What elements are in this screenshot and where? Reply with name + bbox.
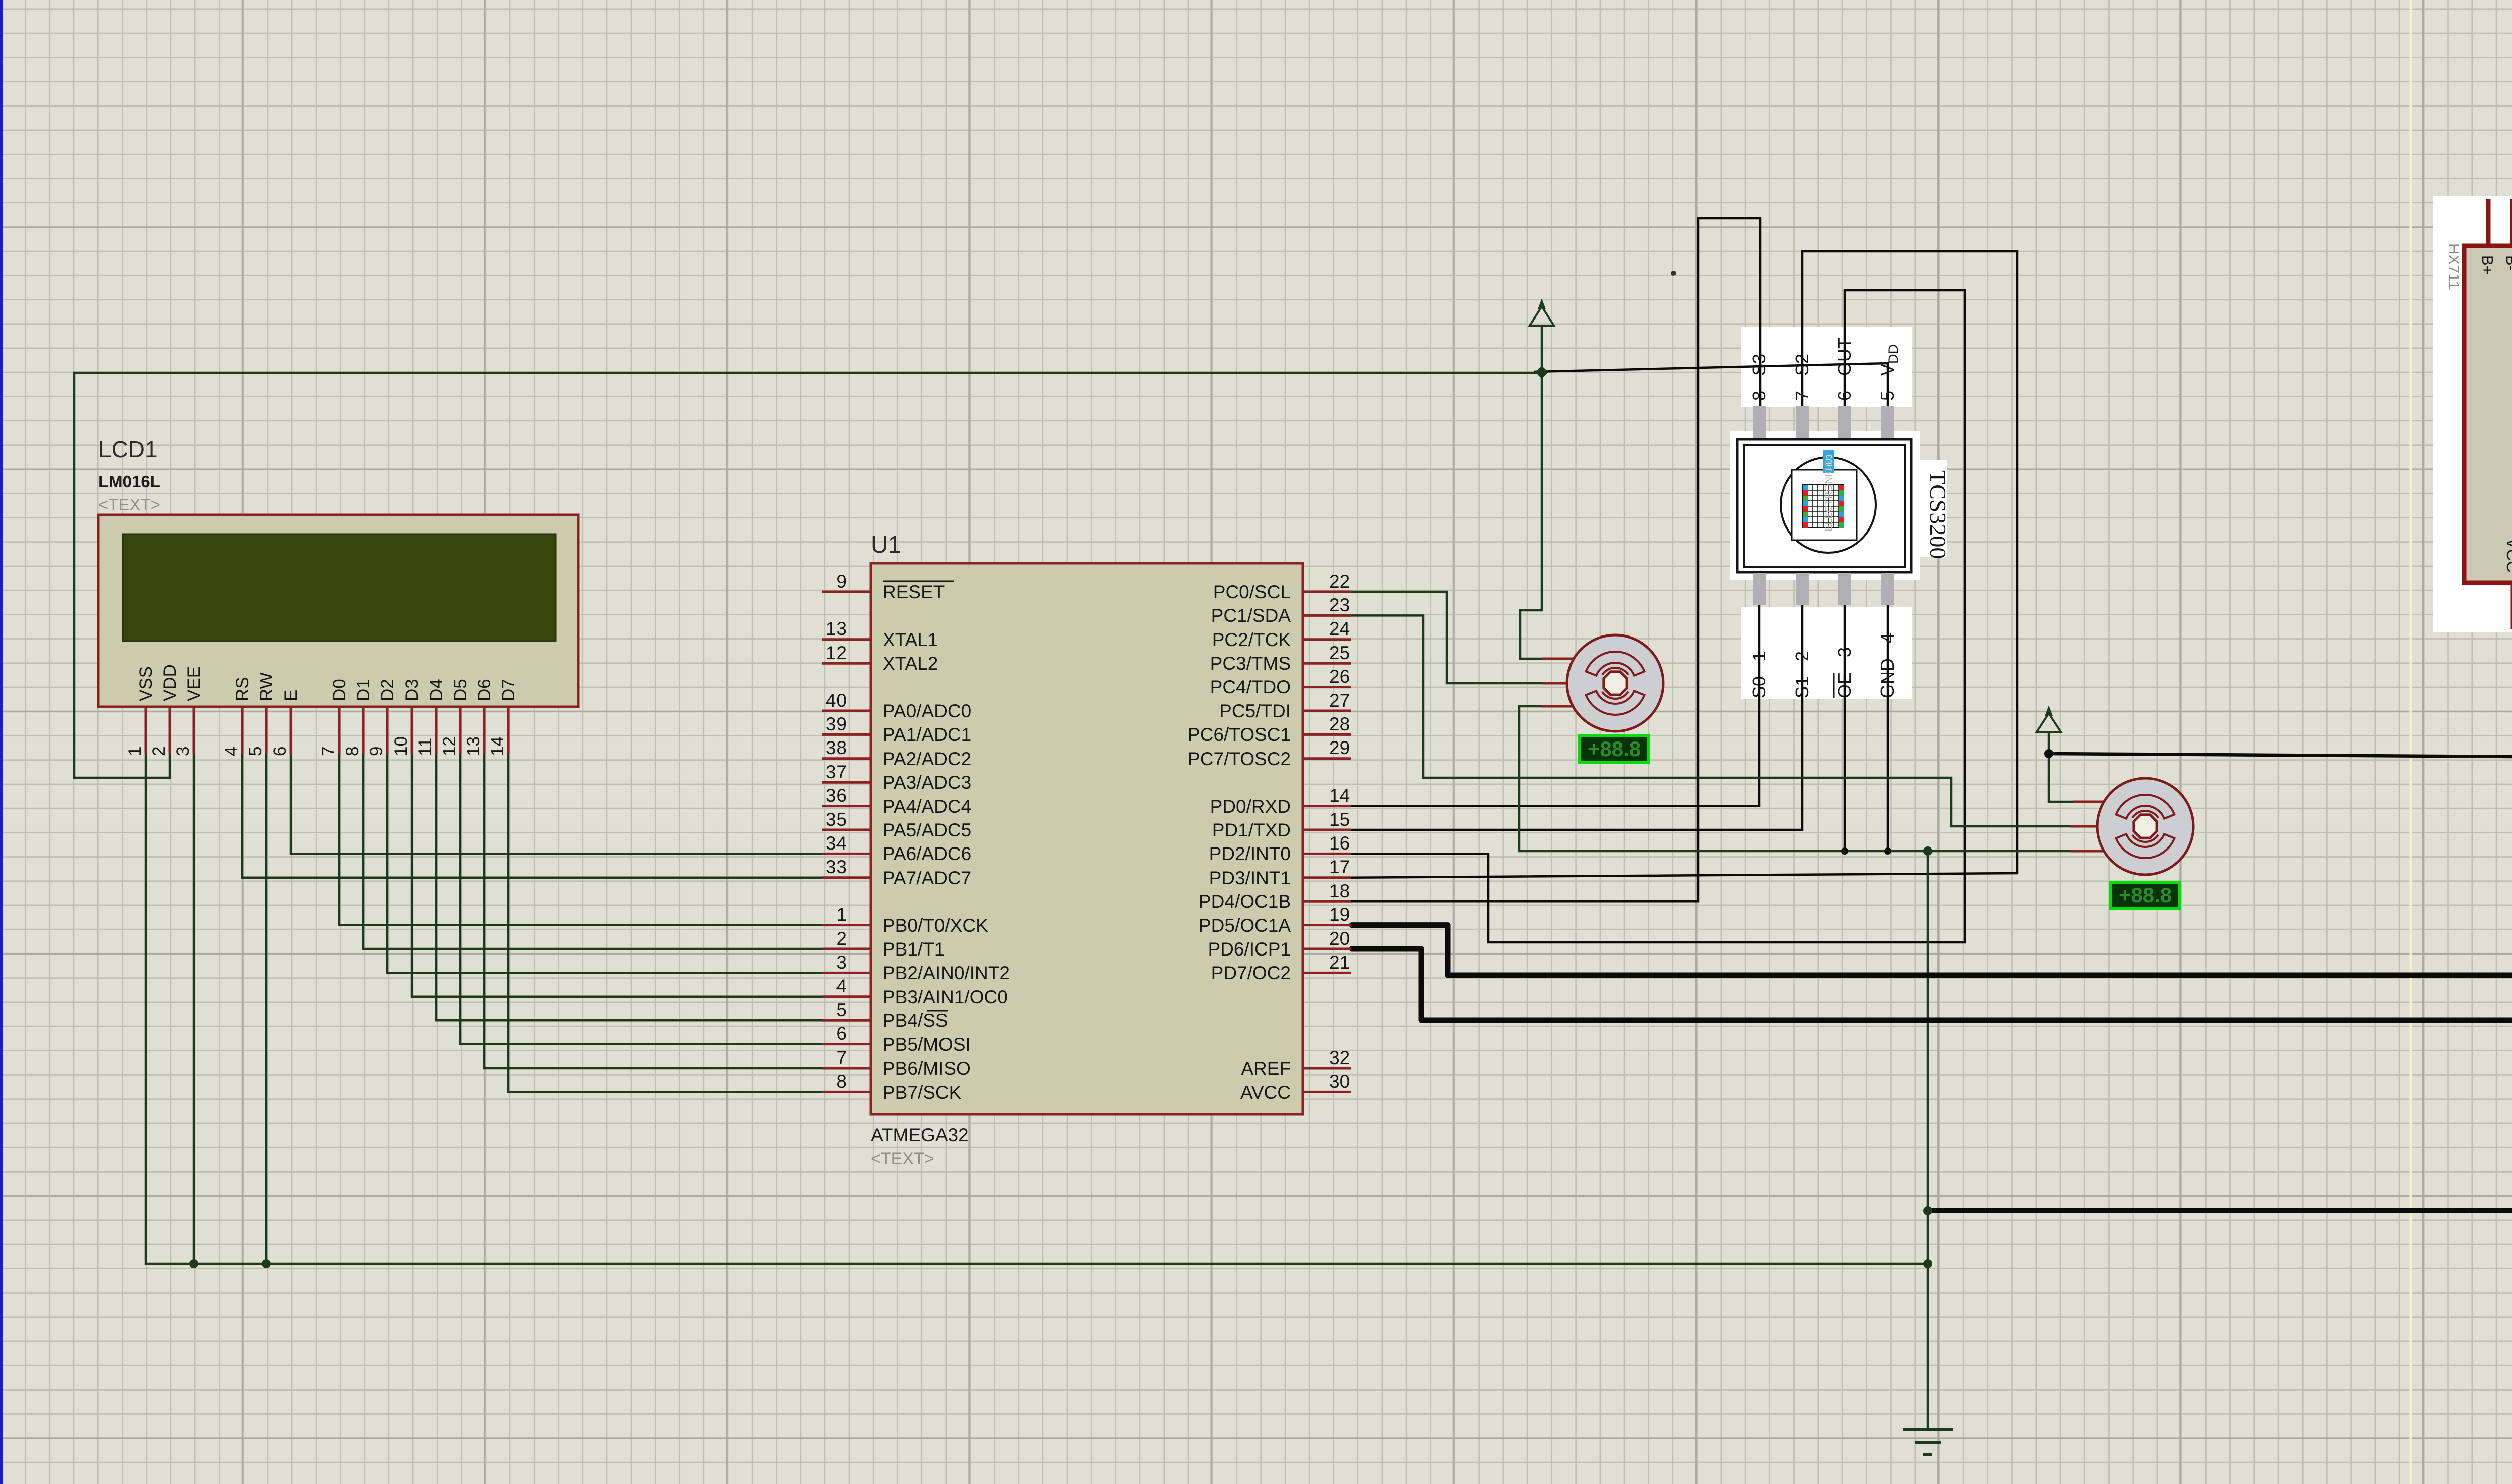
- svg-text:PA3/ADC3: PA3/ADC3: [883, 772, 971, 793]
- svg-text:PC4/TDO: PC4/TDO: [1210, 677, 1291, 697]
- svg-text:38: 38: [826, 737, 847, 758]
- svg-text:ELECTRONICS: ELECTRONICS: [1823, 460, 1834, 532]
- power symbol VCC2: [2037, 708, 2073, 802]
- LCD1 body: [98, 515, 578, 707]
- svg-text:PB7/SCK: PB7/SCK: [883, 1082, 962, 1103]
- svg-text:35: 35: [826, 809, 847, 830]
- wire LCD E to PA6: [291, 754, 822, 854]
- svg-text:AVCC: AVCC: [1240, 1082, 1291, 1103]
- svg-text:26: 26: [1329, 666, 1350, 687]
- svg-text:39: 39: [826, 714, 847, 734]
- ATMEGA32 body: [871, 563, 1303, 1114]
- junction node ground rail bottom: [1923, 1259, 1932, 1268]
- wire PD1/TXD to TCS S1: [1351, 593, 1802, 830]
- svg-text:12: 12: [826, 643, 847, 663]
- svg-text:D3: D3: [402, 679, 422, 701]
- svg-text:PD3/INT1: PD3/INT1: [1209, 868, 1291, 888]
- svg-text:S1 2: S1 2: [1792, 651, 1812, 698]
- svg-text:VCC: VCC: [2503, 538, 2512, 573]
- motor pin red stubs: [1541, 659, 2105, 851]
- svg-text:3: 3: [173, 747, 193, 756]
- motor M2 speed display +88.8: [2111, 882, 2180, 908]
- LCD pin stubs: [146, 707, 508, 754]
- svg-text:8 S3: 8 S3: [1749, 354, 1769, 401]
- svg-text:PC7/TOSC2: PC7/TOSC2: [1188, 749, 1291, 769]
- svg-text:D2: D2: [378, 679, 397, 701]
- svg-text:14: 14: [1329, 785, 1350, 806]
- svg-text:PC3/TMS: PC3/TMS: [1210, 653, 1291, 674]
- svg-text:PA6/ADC6: PA6/ADC6: [883, 843, 971, 864]
- pale sheet divider line: [2410, 0, 2412, 1484]
- svg-text:36: 36: [826, 785, 847, 806]
- wire TCS OE down to ground rail: [1844, 590, 1846, 851]
- svg-text:PA1/ADC1: PA1/ADC1: [883, 724, 971, 745]
- motor M2 body: [2097, 778, 2193, 875]
- TCS3200 lens circle: [1781, 457, 1876, 553]
- svg-text:LCD1: LCD1: [98, 436, 158, 462]
- svg-text:PD7/OC2: PD7/OC2: [1211, 963, 1291, 983]
- svg-text:VDD: VDD: [160, 664, 180, 701]
- HX711 top pin stubs: [2488, 199, 2512, 246]
- svg-text:22: 22: [1329, 571, 1350, 592]
- svg-text:3: 3: [836, 952, 847, 973]
- wire LCD D1 to PB1: [363, 754, 822, 949]
- svg-text:5: 5: [246, 747, 265, 756]
- svg-text:PB4/SS: PB4/SS: [883, 1010, 948, 1031]
- svg-text:40: 40: [826, 690, 847, 711]
- svg-text:16: 16: [1329, 833, 1350, 854]
- junction node ground rail top: [1923, 846, 1932, 856]
- svg-text:GND 4: GND 4: [1877, 633, 1898, 698]
- svg-text:B+: B+: [2479, 255, 2496, 275]
- TCS3200 photodiode array: [1792, 470, 1857, 540]
- HX711 white image background: [2433, 196, 2512, 632]
- TCS top pin pad 8/S3: [1753, 406, 1766, 438]
- svg-text:6: 6: [836, 1023, 847, 1044]
- junction node GND4 on ground rail: [1884, 847, 1891, 855]
- motor M1 speed display +88.8: [1580, 736, 1649, 762]
- svg-text:7 S2: 7 S2: [1792, 354, 1812, 401]
- svg-text:PA2/ADC2: PA2/ADC2: [883, 749, 971, 769]
- LCD1 screen: [123, 534, 556, 641]
- svg-text:PB0/T0/XCK: PB0/T0/XCK: [883, 915, 988, 936]
- wire power to HX711 VCC: [2049, 629, 2512, 757]
- svg-text:10: 10: [391, 736, 411, 756]
- wire LCD D6 to PB6: [484, 754, 822, 1068]
- TCS top pin pad 6/OUT: [1838, 406, 1851, 438]
- svg-text:RW: RW: [257, 672, 276, 701]
- svg-text:ATMEGA32: ATMEGA32: [871, 1125, 969, 1145]
- svg-text:PD1/TXD: PD1/TXD: [1212, 820, 1291, 840]
- svg-text:32: 32: [1329, 1047, 1350, 1068]
- svg-text:34: 34: [826, 833, 847, 854]
- svg-text:D7: D7: [499, 679, 518, 701]
- svg-text:+88.8: +88.8: [1588, 737, 1641, 761]
- svg-text:D4: D4: [427, 679, 446, 701]
- wire LCD RS to PA7: [242, 754, 822, 878]
- wire PD2/INT0 to TCS OUT: [1351, 290, 1965, 942]
- junction node VEE: [189, 1259, 198, 1268]
- svg-text:XTAL1: XTAL1: [883, 629, 938, 650]
- ATMEGA32 left pin stubs: [822, 592, 871, 1092]
- svg-text:2: 2: [149, 747, 169, 756]
- wire LCD D5 to PB5: [460, 754, 822, 1044]
- svg-text:RESET: RESET: [883, 582, 945, 602]
- junction node OE on ground rail: [1841, 847, 1848, 855]
- svg-text:19: 19: [1329, 904, 1350, 925]
- thick wire PD5/OC1A to HX711 SCK: [1352, 629, 2512, 975]
- svg-text:D6: D6: [475, 679, 494, 701]
- motor M2 top arc band: [2116, 795, 2175, 819]
- thick wire ground to HX711 GND: [1928, 629, 2512, 1211]
- svg-text:14: 14: [488, 736, 507, 756]
- wire PD4/OC1B to TCS S3: [1351, 218, 1760, 901]
- svg-text:PB5/MOSI: PB5/MOSI: [883, 1034, 971, 1055]
- svg-text:28: 28: [1329, 714, 1350, 734]
- ground symbol GND: [1903, 1430, 1953, 1454]
- svg-text:11: 11: [415, 738, 435, 756]
- svg-text:D0: D0: [330, 679, 349, 701]
- svg-text:U1: U1: [871, 532, 901, 558]
- svg-text:30: 30: [1329, 1071, 1350, 1092]
- svg-text:6: 6: [270, 747, 290, 756]
- thick wire PD6/ICP1 to HX711 DT: [1352, 629, 2512, 1020]
- TCS3200 sensor U3 outer body: [1737, 439, 1911, 572]
- svg-text:37: 37: [826, 762, 847, 782]
- motor M1 top arc band: [1586, 652, 1645, 676]
- svg-text:HX711: HX711: [2445, 243, 2463, 290]
- TCS bottom pin pad 1/S0: [1753, 573, 1766, 605]
- svg-text:S0 1: S0 1: [1749, 651, 1769, 698]
- svg-text:9: 9: [367, 747, 386, 756]
- svg-text:1: 1: [836, 904, 847, 925]
- wire PC1/SDA to motor2 middle pin: [1351, 615, 2070, 826]
- motor M1 bottom arc band: [1586, 691, 1645, 715]
- svg-text:PC6/TOSC1: PC6/TOSC1: [1188, 724, 1291, 745]
- TCS top pin pad 5/VDD: [1881, 406, 1894, 438]
- svg-text:PC1/SDA: PC1/SDA: [1211, 605, 1291, 626]
- wire PD3/INT1 to TCS S2: [1351, 251, 2017, 878]
- svg-text:27: 27: [1329, 690, 1350, 711]
- svg-text:E: E: [281, 690, 301, 701]
- junction node ground to HX GND wire: [1923, 1206, 1932, 1215]
- motor M1 shaft octagon: [1604, 672, 1627, 695]
- svg-text:4: 4: [836, 976, 847, 996]
- svg-text:18: 18: [1329, 881, 1350, 901]
- svg-text:LM016L: LM016L: [98, 472, 160, 491]
- TCS bottom pin pad 3/OE: [1838, 573, 1851, 605]
- svg-text:PD4/OC1B: PD4/OC1B: [1199, 891, 1291, 912]
- wire TCS GND down to ground rail: [1887, 590, 1889, 851]
- svg-text:33: 33: [826, 857, 847, 877]
- svg-text:PD0/RXD: PD0/RXD: [1210, 796, 1291, 817]
- svg-text:XTAL2: XTAL2: [883, 653, 938, 674]
- blue sheet edge: [0, 0, 3, 1484]
- svg-text:7: 7: [836, 1047, 847, 1068]
- motor M2 bottom arc band: [2116, 834, 2175, 858]
- svg-text:RS: RS: [233, 677, 252, 701]
- svg-text:PC2/TCK: PC2/TCK: [1212, 629, 1291, 650]
- svg-text:7: 7: [319, 747, 338, 756]
- wire LCD D0 to PB0: [339, 754, 822, 925]
- junction node RW: [262, 1259, 271, 1268]
- svg-text:PA7/ADC7: PA7/ADC7: [883, 868, 971, 888]
- svg-text:PC0/SCL: PC0/SCL: [1213, 582, 1291, 602]
- wire LCD D2 to PB2: [387, 754, 822, 973]
- svg-text:PB3/AIN1/OC0: PB3/AIN1/OC0: [883, 987, 1008, 1007]
- svg-text:<TEXT>: <TEXT>: [98, 495, 160, 514]
- svg-text:PA5/ADC5: PA5/ADC5: [883, 820, 971, 840]
- svg-text:PD6/ICP1: PD6/ICP1: [1208, 939, 1291, 960]
- svg-text:D1: D1: [354, 679, 373, 701]
- svg-text:VSS: VSS: [136, 666, 156, 701]
- wire LCD D7 to PB7: [508, 754, 822, 1092]
- TCS3200 inner body: [1744, 445, 1905, 567]
- svg-text:PA4/ADC4: PA4/ADC4: [883, 796, 971, 817]
- svg-text:PA0/ADC0: PA0/ADC0: [883, 701, 971, 721]
- wire ground vertical to GND symbol: [1927, 851, 1929, 1429]
- svg-text:8: 8: [343, 747, 362, 756]
- svg-text:D5: D5: [451, 679, 470, 701]
- svg-text:13: 13: [464, 736, 483, 756]
- svg-text:12: 12: [440, 736, 459, 756]
- svg-text:TCS3200: TCS3200: [1925, 470, 1951, 559]
- svg-text:PB1/T1: PB1/T1: [883, 939, 945, 960]
- svg-text:OE 3: OE 3: [1834, 647, 1855, 698]
- wire LCD VSS/VEE/RW ground rail: [146, 754, 1928, 1264]
- svg-text:17: 17: [1329, 857, 1350, 877]
- svg-text:9: 9: [836, 571, 847, 592]
- wire power junction to TCS VDD (sloped): [1534, 363, 1888, 422]
- svg-text:2: 2: [836, 928, 847, 949]
- power symbol VCC1: [1520, 301, 1554, 659]
- svg-text:<TEXT>: <TEXT>: [871, 1149, 934, 1169]
- svg-text:15: 15: [1329, 809, 1350, 830]
- svg-text:PB2/AIN0/INT2: PB2/AIN0/INT2: [883, 963, 1010, 983]
- svg-text:PB6/MISO: PB6/MISO: [883, 1058, 971, 1079]
- svg-text:VEE: VEE: [184, 666, 204, 701]
- svg-text:25: 25: [1329, 643, 1350, 663]
- TCS bottom pin pad 4/GND: [1881, 573, 1894, 605]
- wire PD0/RXD to TCS S0: [1351, 593, 1759, 806]
- svg-text:6 OUT: 6 OUT: [1834, 338, 1855, 401]
- svg-text:13: 13: [826, 618, 847, 639]
- wire LCD D4 to PB4: [436, 754, 822, 1020]
- ATMEGA32 right pin stubs: [1303, 592, 1351, 1092]
- svg-text:20: 20: [1329, 928, 1350, 949]
- motor M1 body: [1567, 635, 1663, 731]
- svg-text:5: 5: [836, 1000, 847, 1020]
- svg-text:24: 24: [1329, 618, 1350, 639]
- svg-text:PD2/INT0: PD2/INT0: [1209, 843, 1291, 864]
- svg-text:4: 4: [222, 747, 241, 756]
- svg-text:AREF: AREF: [1241, 1058, 1291, 1079]
- svg-text:PD5/OC1A: PD5/OC1A: [1199, 915, 1291, 936]
- wire PC0/SCL to motor1 middle pin: [1351, 592, 1542, 683]
- motor M2 shaft octagon: [2134, 815, 2157, 838]
- stray ink dot: [1671, 271, 1676, 276]
- svg-text:+88.8: +88.8: [2119, 883, 2172, 907]
- wire LCD D3 to PB3: [412, 754, 822, 997]
- HL3 cyan tag: [1823, 450, 1834, 473]
- svg-text:23: 23: [1329, 595, 1350, 615]
- svg-text:29: 29: [1329, 737, 1350, 758]
- svg-text:B-: B-: [2503, 255, 2512, 271]
- svg-text:21: 21: [1329, 952, 1350, 973]
- TCS bottom pin pad 2/S1: [1796, 573, 1809, 605]
- svg-text:PC5/TDI: PC5/TDI: [1219, 701, 1291, 721]
- TCS top pin pad 7/S2: [1796, 406, 1809, 438]
- svg-text:8: 8: [836, 1071, 847, 1092]
- wire LCD VDD power loop: [74, 373, 1542, 778]
- svg-text:1: 1: [125, 747, 145, 756]
- junction node LCD power loop: [1535, 366, 1548, 379]
- wire ground rail y=1694 motor1 to motor2: [1519, 706, 2070, 851]
- HX711 module U1 body: [2464, 246, 2512, 583]
- TCS3200 module white label strips: [1741, 327, 1912, 407]
- junction node power2 to VCC wire: [2044, 749, 2053, 758]
